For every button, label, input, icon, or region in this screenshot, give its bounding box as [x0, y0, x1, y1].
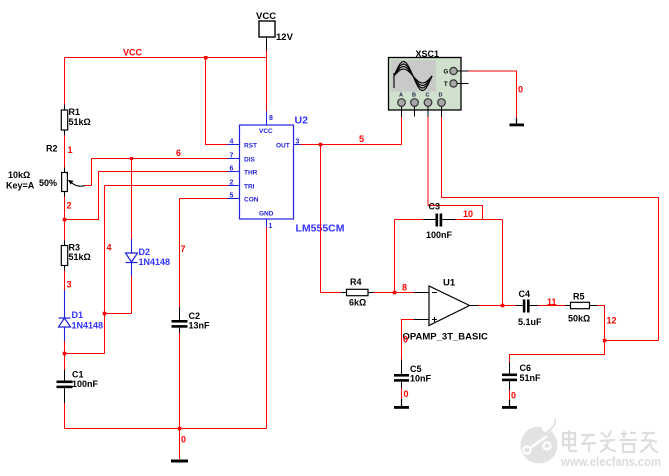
svg-text:0: 0 — [181, 435, 186, 445]
svg-text:13nF: 13nF — [189, 321, 211, 331]
ground symbol C5 — [394, 399, 409, 409]
wire net 5 OUT — [301, 144, 402, 146]
wire net 8 — [374, 292, 415, 294]
wire net5 down to R4 — [321, 145, 342, 293]
power VCC source 12V — [256, 11, 294, 50]
ground symbol bottom center — [171, 460, 188, 463]
wire VCC vertical to U2 pin 8 — [266, 50, 268, 111]
U2 pin names — [244, 128, 290, 218]
junction net4 D2 branch — [103, 312, 107, 316]
svg-text:U1: U1 — [443, 278, 456, 289]
svg-text:R5: R5 — [573, 292, 585, 302]
wire node 1 R1 to R2 — [64, 135, 66, 168]
wire node 2 R2 bottom — [64, 197, 66, 241]
svg-text:D2: D2 — [139, 247, 151, 257]
svg-text:6kΩ: 6kΩ — [349, 298, 366, 308]
svg-text:C: C — [426, 93, 430, 99]
svg-text:VCC: VCC — [123, 48, 143, 58]
resistor R4 6k — [342, 277, 374, 308]
svg-text:5: 5 — [359, 134, 364, 144]
wire scope C drop — [428, 117, 483, 220]
ground symbol C6 — [502, 400, 517, 409]
resistor R1 51k — [61, 105, 90, 135]
svg-text:T: T — [444, 82, 448, 88]
svg-text:6: 6 — [176, 148, 181, 158]
wire net 4 bottom horizontal — [65, 353, 105, 355]
resistor R5 50k — [566, 292, 598, 324]
svg-text:100nF: 100nF — [72, 379, 99, 389]
wire U1 output net 10 — [478, 305, 516, 307]
svg-text:51kΩ: 51kΩ — [69, 252, 91, 262]
svg-text:B: B — [412, 93, 416, 99]
capacitor C6 51nF — [502, 362, 541, 390]
svg-text:6: 6 — [230, 166, 234, 173]
junction net6 to D2 — [130, 157, 133, 160]
svg-text:50%: 50% — [39, 178, 57, 188]
wire node 2 branch to THR — [65, 172, 228, 220]
svg-text:OUT: OUT — [276, 143, 290, 150]
svg-text:D: D — [439, 93, 443, 99]
svg-text:C6: C6 — [520, 363, 532, 373]
svg-text:A: A — [399, 93, 403, 99]
svg-text:1N4148: 1N4148 — [72, 321, 104, 331]
diode D1 1N4148 — [59, 290, 71, 341]
svg-text:DIS: DIS — [244, 157, 256, 164]
junction net 12 — [603, 339, 607, 343]
wire net 4 riser to TRI — [104, 186, 106, 354]
svg-text:51kΩ: 51kΩ — [69, 117, 91, 127]
wire ground stem — [179, 429, 181, 460]
op-amp U1 — [414, 286, 478, 326]
svg-text:GND: GND — [259, 211, 274, 218]
svg-text:R4: R4 — [350, 277, 362, 287]
wire net12 to scope D column — [605, 340, 659, 342]
junction output — [501, 304, 505, 308]
svg-text:C2: C2 — [189, 311, 201, 321]
wire R2 wiper to DIS riser — [85, 185, 92, 187]
svg-text:0: 0 — [511, 391, 516, 401]
wire DIS riser — [91, 159, 93, 186]
wire C3 left riser to net 8 — [394, 220, 396, 293]
wire net 6 down to D2 — [131, 159, 133, 240]
svg-text:100nF: 100nF — [426, 230, 453, 240]
wire net10 riser to output — [502, 220, 504, 306]
potentiometer R2 10k 50% Key=A — [6, 144, 85, 197]
diode D2 1N4148 — [126, 239, 138, 276]
wire scope A drop — [401, 117, 403, 145]
watermark CJK glyph shapes — [563, 430, 658, 452]
svg-text:CON: CON — [244, 197, 259, 204]
junction on VCC rail at RST branch — [204, 56, 208, 60]
junction D1/C1 node — [63, 352, 67, 356]
svg-text:10kΩ: 10kΩ — [8, 170, 30, 180]
junction net 5 — [319, 143, 323, 147]
wire C2 to ground rail — [179, 333, 181, 429]
svg-text:4: 4 — [107, 243, 112, 253]
wire C1 to ground rail — [64, 403, 66, 429]
svg-text:5: 5 — [230, 193, 234, 200]
wire net4 to D2 cathode — [105, 313, 132, 315]
wire net 12 — [510, 306, 605, 363]
capacitor C2 13nF — [172, 307, 211, 333]
wire net 4 TRI horizontal — [105, 185, 228, 187]
svg-text:1N4148: 1N4148 — [139, 257, 171, 267]
capacitor C1 100nF — [57, 354, 99, 404]
resistor R3 51k — [61, 241, 90, 271]
svg-text:C4: C4 — [519, 289, 531, 299]
svg-text:G: G — [444, 70, 449, 76]
wire U2 GND pin to rail — [266, 227, 268, 429]
wire net 6 DIS horizontal — [92, 158, 228, 160]
svg-text:VCC: VCC — [259, 128, 273, 135]
wire scope D drop — [442, 117, 659, 341]
svg-text:12V: 12V — [276, 32, 294, 43]
wire net CON riser — [180, 198, 228, 200]
svg-text:RST: RST — [244, 143, 257, 150]
wire net 11 — [538, 305, 566, 307]
svg-text:2: 2 — [67, 201, 72, 211]
svg-text:11: 11 — [547, 297, 557, 307]
wire scope G to ground — [469, 71, 517, 118]
svg-text:0: 0 — [404, 389, 409, 399]
wire ground rail net 0 — [65, 428, 267, 430]
svg-text:10: 10 — [463, 209, 473, 219]
svg-text:C5: C5 — [410, 364, 422, 374]
wire RST branch from VCC rail — [206, 58, 228, 145]
svg-text:Key=A: Key=A — [6, 181, 35, 191]
svg-text:THR: THR — [244, 170, 258, 177]
oscilloscope XSC1 — [389, 49, 469, 117]
junction node 2 — [63, 218, 67, 222]
wire node 3 R3 to D1 — [64, 271, 66, 291]
watermark logo — [521, 419, 558, 464]
svg-text:4: 4 — [230, 139, 234, 146]
svg-text:C3: C3 — [429, 202, 441, 212]
svg-text:7: 7 — [230, 153, 234, 160]
svg-text:OPAMP_3T_BASIC: OPAMP_3T_BASIC — [403, 332, 488, 343]
wire VCC rail horizontal — [65, 57, 267, 59]
svg-text:51nF: 51nF — [520, 373, 542, 383]
svg-text:R3: R3 — [69, 243, 81, 253]
svg-text:10nF: 10nF — [410, 374, 432, 384]
svg-text:R1: R1 — [69, 107, 81, 117]
svg-text:3: 3 — [67, 280, 72, 290]
svg-text:1: 1 — [269, 223, 273, 230]
svg-text:0: 0 — [518, 85, 523, 95]
svg-text:12: 12 — [607, 316, 617, 326]
svg-text:1: 1 — [68, 145, 73, 155]
svg-text:C1: C1 — [72, 370, 84, 380]
wire plus input to C5 — [402, 320, 415, 360]
svg-text:R2: R2 — [46, 144, 58, 154]
svg-text:8: 8 — [402, 283, 407, 293]
svg-text:8: 8 — [269, 115, 273, 122]
wire C6 to ground — [509, 390, 511, 400]
svg-text:U2: U2 — [295, 115, 309, 127]
svg-text:50kΩ: 50kΩ — [568, 314, 590, 324]
svg-text:2: 2 — [230, 180, 234, 187]
svg-text:0: 0 — [403, 335, 408, 345]
wire VCC rail down to R1 — [64, 58, 66, 106]
wire net 10 C3 right — [455, 219, 503, 221]
capacitor C4 5.1uF — [516, 289, 543, 327]
capacitor C5 10nF — [394, 360, 432, 389]
op-amp U2 555 timer box — [228, 111, 301, 227]
junction net 8 — [393, 291, 397, 295]
wire C5 to ground — [401, 388, 403, 399]
wire D2 cathode lead red — [131, 276, 133, 314]
ground symbol scope — [510, 118, 525, 126]
svg-text:3: 3 — [296, 139, 300, 146]
svg-text:www.elecfans.com: www.elecfans.com — [560, 454, 661, 469]
U2 pin numbers — [230, 115, 300, 230]
junction ground rail — [178, 427, 182, 431]
svg-text:7: 7 — [181, 244, 186, 254]
svg-text:TRI: TRI — [244, 184, 255, 191]
svg-text:D1: D1 — [72, 310, 84, 320]
wire D1 anode to node — [64, 341, 66, 354]
capacitor C3 100nF — [395, 202, 456, 241]
svg-text:5.1uF: 5.1uF — [518, 317, 542, 327]
